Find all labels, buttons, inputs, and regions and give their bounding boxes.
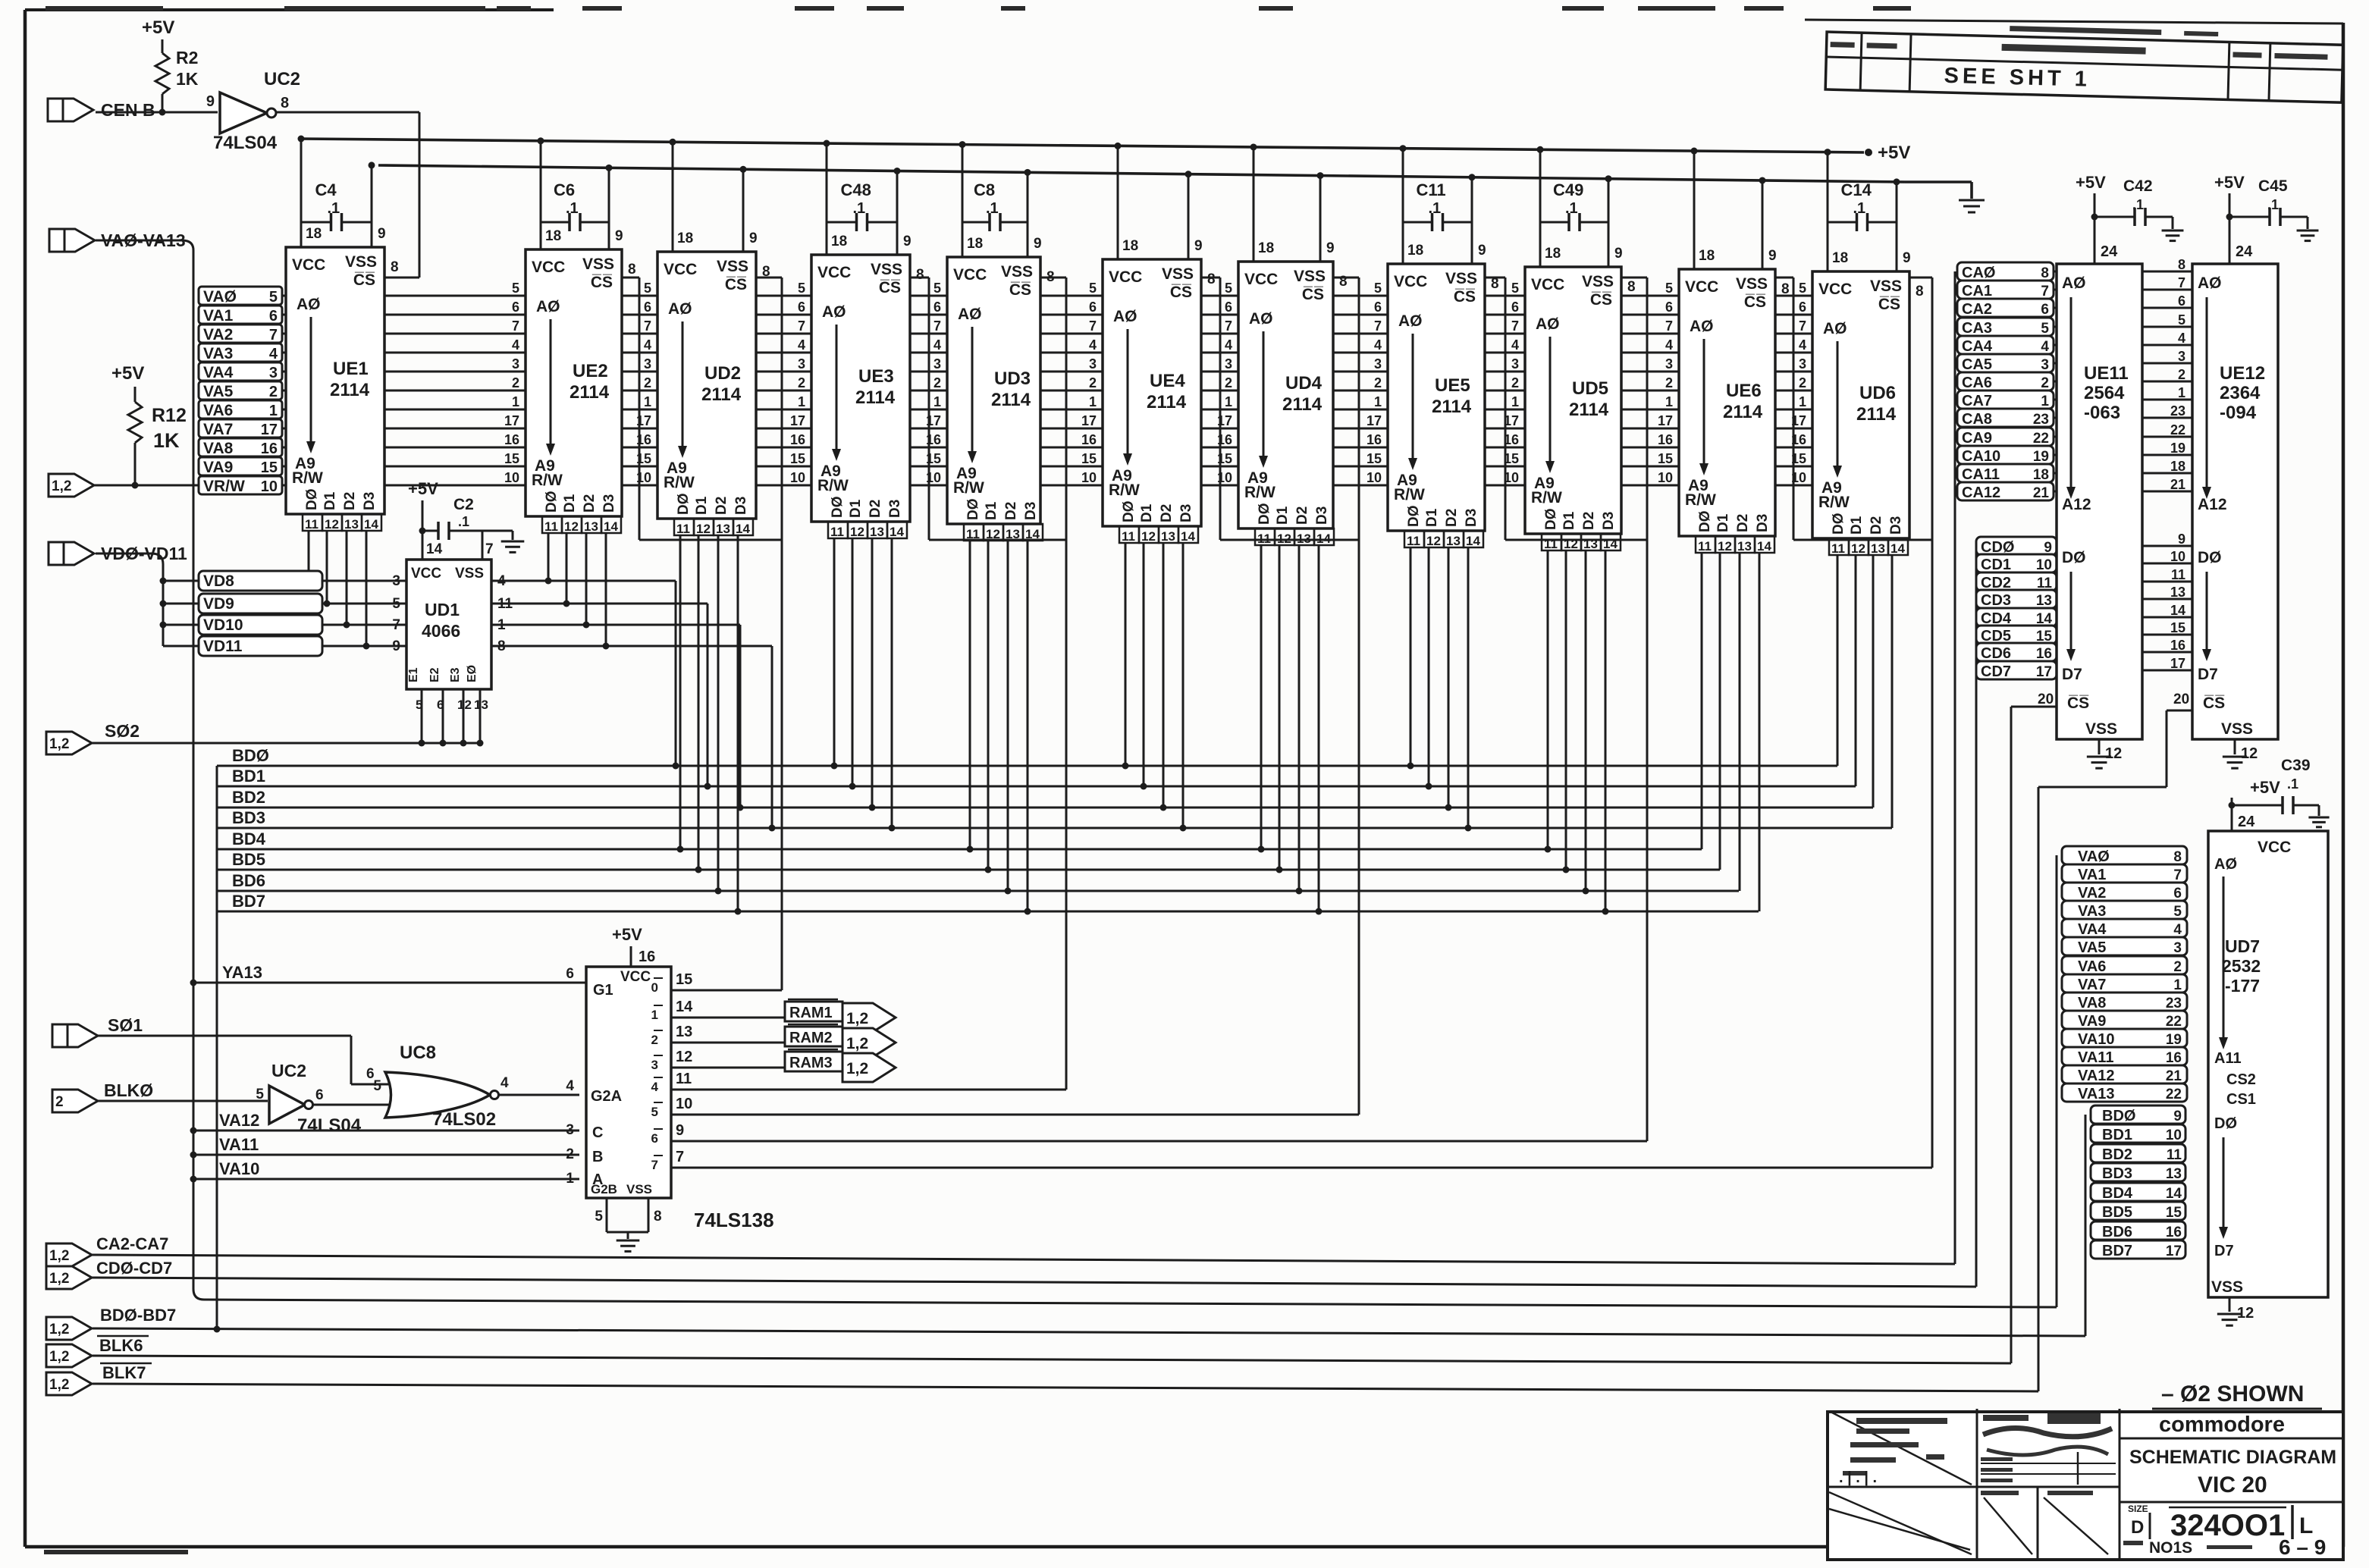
svg-text:24: 24 (2236, 243, 2253, 260)
svg-text:19: 19 (2166, 1032, 2182, 1048)
svg-text:9: 9 (1903, 250, 1911, 266)
svg-text:9: 9 (615, 228, 623, 244)
svg-text:16: 16 (1366, 432, 1382, 447)
svg-text:4: 4 (2178, 331, 2185, 346)
wire UD6 pin9 stub (1896, 182, 1898, 271)
resistor R2 1K (162, 39, 164, 53)
svg-text:2: 2 (798, 375, 805, 390)
capacitor C48 .1 (827, 221, 857, 224)
wire UE4 data drops to BD0-BD3 (1125, 543, 1127, 766)
ground (VSS rail, top right) (1959, 199, 1985, 202)
svg-text:1: 1 (512, 394, 519, 409)
svg-text:-094: -094 (2220, 403, 2257, 423)
wire chip-select stubs (CS pin 8) (622, 277, 639, 279)
svg-text:AØ: AØ (2198, 274, 2222, 292)
svg-text:20: 20 (2038, 691, 2054, 707)
wire UE1 pin9 stub (371, 165, 373, 247)
svg-text:VD8: VD8 (203, 572, 234, 590)
wire YA13 to UC4 G1 (193, 982, 586, 984)
address bus ladder A0-A9 (through all 2114 gaps) (227, 295, 1909, 297)
svg-text:4066: 4066 (422, 621, 460, 641)
svg-text:7: 7 (512, 318, 519, 334)
revision table (SEE SHT 1) (1825, 21, 2343, 102)
svg-text:5: 5 (1225, 281, 1232, 296)
wire CA2-CA7 run (91, 1255, 1955, 1264)
svg-text:CD1: CD1 (1981, 557, 2011, 573)
ground (UC4) (617, 1240, 640, 1242)
wire UD2 data drops to BD4-BD7 (679, 535, 682, 849)
svg-text:13: 13 (2170, 585, 2185, 600)
svg-text:4: 4 (644, 337, 651, 353)
svg-text:7: 7 (2173, 867, 2182, 883)
svg-text:CD7: CD7 (1981, 663, 2011, 680)
svg-text:G2A: G2A (591, 1088, 622, 1105)
svg-text:12: 12 (986, 527, 1000, 541)
svg-text:VSS: VSS (1445, 270, 1477, 287)
sheet border frame (24, 10, 27, 1547)
wire UD4 pin18 stub (1253, 147, 1255, 262)
svg-text:2564: 2564 (2084, 383, 2125, 403)
svg-text:2: 2 (1511, 375, 1519, 390)
svg-text:VCC: VCC (1244, 271, 1278, 288)
svg-text:D3: D3 (362, 492, 378, 510)
wire UD2 pin9 stub (742, 169, 745, 252)
svg-text:14: 14 (1603, 537, 1618, 551)
wire UE11 +5V pin 24 (2094, 193, 2096, 264)
svg-text:2: 2 (1089, 375, 1097, 390)
op-amp UC2-2 inverter (74LS04) (269, 1086, 305, 1124)
svg-text:+5V: +5V (111, 363, 144, 384)
svg-text:2114: 2114 (330, 380, 370, 400)
svg-text:3: 3 (566, 1122, 574, 1138)
connector CA2-CA7 (1,2) (46, 1243, 92, 1266)
svg-text:8: 8 (1627, 279, 1636, 295)
svg-text:AØ: AØ (1690, 318, 1714, 335)
wire UC4 Y7 to UD6 chip-select (671, 1167, 1932, 1169)
svg-text:VA4: VA4 (2078, 921, 2107, 938)
svg-text:3: 3 (933, 356, 941, 372)
svg-text:AØ: AØ (297, 296, 321, 313)
svg-text:16: 16 (2166, 1225, 2182, 1240)
svg-text:16: 16 (636, 432, 651, 447)
svg-text:+5V: +5V (2214, 173, 2245, 192)
svg-text:B: B (592, 1149, 603, 1165)
svg-text:VSS: VSS (626, 1182, 652, 1196)
svg-text:VA12: VA12 (219, 1111, 259, 1130)
svg-text:UD5: UD5 (1572, 378, 1608, 399)
svg-text:VSS: VSS (1582, 273, 1614, 290)
svg-text:CDØ-CD7: CDØ-CD7 (96, 1259, 172, 1278)
svg-text:16: 16 (2166, 1050, 2182, 1066)
svg-text:1: 1 (2173, 977, 2182, 993)
svg-text:12: 12 (1141, 529, 1156, 544)
svg-text:17: 17 (2166, 1243, 2182, 1259)
svg-text:7: 7 (676, 1149, 684, 1165)
svg-text:74LS02: 74LS02 (432, 1109, 496, 1130)
svg-text:VSS: VSS (1001, 263, 1033, 281)
svg-text:5: 5 (1665, 281, 1673, 296)
svg-text:6: 6 (437, 698, 444, 712)
svg-text:7: 7 (2041, 284, 2049, 299)
svg-text:13: 13 (1583, 537, 1598, 551)
svg-text:4: 4 (1665, 337, 1673, 353)
svg-text:VCC: VCC (1685, 278, 1718, 296)
svg-text:R12: R12 (152, 405, 187, 426)
svg-text:1K: 1K (153, 429, 180, 452)
svg-text:C39: C39 (2281, 757, 2311, 774)
svg-text:DØ: DØ (1831, 513, 1847, 535)
svg-text:3: 3 (392, 573, 400, 589)
connector BD0-BD7 (1,2) (46, 1317, 92, 1340)
capacitor C8 .1 (962, 221, 990, 224)
capacitor C14 .1 (1828, 221, 1857, 224)
svg-text:2: 2 (55, 1094, 64, 1110)
svg-text:9: 9 (378, 226, 386, 242)
svg-text:17: 17 (2170, 656, 2185, 671)
svg-text:1,2: 1,2 (846, 1035, 868, 1052)
ground (C45) (2297, 230, 2319, 232)
wire UC2 output to UE1 CS (276, 111, 419, 114)
svg-text:R/W: R/W (664, 474, 695, 491)
svg-text:4: 4 (651, 1080, 659, 1094)
svg-text:DØ: DØ (544, 491, 560, 513)
RAM UE5 2114 (1388, 264, 1485, 531)
svg-text:6: 6 (1665, 299, 1673, 315)
svg-text:15: 15 (2166, 1205, 2182, 1221)
svg-text:4: 4 (269, 346, 278, 362)
svg-text:D1: D1 (848, 499, 864, 518)
node BD0-BD7 label boxes (UD7) (2091, 1105, 2185, 1124)
svg-text:3: 3 (1799, 356, 1806, 372)
svg-text:.1: .1 (2287, 776, 2298, 792)
svg-text:4: 4 (2041, 339, 2049, 355)
svg-text:18: 18 (1407, 243, 1423, 259)
svg-text:15: 15 (2170, 620, 2185, 635)
wire UD5 pin18 stub (1539, 149, 1542, 267)
ROM UD7 2332-177 (2208, 831, 2328, 1297)
svg-text:SØ1: SØ1 (108, 1015, 143, 1035)
svg-text:13: 13 (870, 525, 884, 539)
svg-text:D3: D3 (1601, 512, 1617, 530)
wire UD6 pin18 stub (1827, 152, 1829, 271)
svg-text:UD6: UD6 (1859, 383, 1896, 403)
svg-text:15: 15 (1081, 451, 1097, 466)
svg-text:AØ: AØ (1113, 308, 1137, 325)
svg-text:7: 7 (644, 318, 651, 334)
svg-text:DØ: DØ (304, 489, 320, 511)
svg-text:AØ: AØ (536, 298, 560, 315)
svg-text:11: 11 (2167, 1147, 2182, 1163)
svg-text:DØ: DØ (1121, 501, 1137, 523)
svg-text:11: 11 (1407, 534, 1420, 548)
svg-text:6: 6 (512, 299, 519, 315)
svg-text:4: 4 (798, 337, 805, 353)
svg-text:14: 14 (2170, 603, 2185, 618)
svg-text:NO1S: NO1S (2149, 1539, 2192, 1557)
svg-text:R/W: R/W (1818, 494, 1850, 511)
svg-text:D3: D3 (1888, 516, 1904, 535)
wire UE2 data drops to VD lines (548, 533, 550, 581)
wire VD8-VD11 lines from UD1 to data drops (163, 580, 676, 582)
wire VA connector to bus (96, 240, 182, 242)
svg-text:11: 11 (1544, 537, 1558, 551)
svg-text:9: 9 (2173, 1109, 2182, 1124)
svg-text:8: 8 (1046, 269, 1055, 285)
svg-text:VCC: VCC (1109, 268, 1142, 286)
svg-text:C̅S̅: C̅S̅ (1009, 281, 1031, 299)
svg-text:18: 18 (1699, 248, 1715, 264)
svg-text:VA11: VA11 (219, 1135, 259, 1154)
connector VR/W (1,2) (49, 474, 94, 497)
svg-text:C̅S̅: C̅S̅ (2067, 695, 2089, 712)
svg-text:11: 11 (966, 527, 980, 541)
wire UE4 pin18 stub (1117, 146, 1119, 259)
svg-text:D2: D2 (1003, 502, 1019, 520)
svg-text:VA8: VA8 (203, 440, 234, 457)
svg-text:BD3: BD3 (2102, 1165, 2132, 1182)
wire UE6 pin18 stub (1693, 151, 1696, 269)
svg-text:BD4: BD4 (232, 829, 266, 848)
svg-text:14: 14 (364, 517, 378, 532)
svg-text:14: 14 (1757, 539, 1771, 554)
svg-text:1: 1 (1665, 394, 1673, 409)
svg-text:9: 9 (392, 638, 400, 654)
svg-text:D2: D2 (714, 497, 730, 515)
svg-text:19: 19 (2170, 441, 2185, 456)
svg-text:2114: 2114 (570, 382, 610, 403)
svg-text:UC8: UC8 (400, 1043, 436, 1063)
wire UC4 Y6 to UD5/UE6 chip-select (671, 1140, 1647, 1143)
svg-text:BD4: BD4 (2102, 1185, 2133, 1202)
svg-text:A12: A12 (2198, 496, 2227, 513)
svg-text:18: 18 (1122, 238, 1138, 254)
svg-text:R2: R2 (176, 48, 198, 67)
svg-text:DØ: DØ (1697, 511, 1713, 533)
svg-text:VSS: VSS (871, 261, 902, 278)
svg-text:SEE SHT 1: SEE SHT 1 (1944, 64, 2091, 92)
svg-text:CA1: CA1 (1962, 283, 1992, 299)
svg-text:D2: D2 (1159, 504, 1175, 522)
svg-text:10: 10 (2170, 549, 2185, 564)
svg-text:BDØ: BDØ (2102, 1108, 2135, 1124)
RAM UE1 2114 (286, 247, 384, 514)
svg-text:C̅S̅: C̅S̅ (1302, 286, 1324, 303)
svg-text:2114: 2114 (1432, 397, 1472, 417)
svg-text:SIZE: SIZE (2128, 1504, 2148, 1514)
svg-text:VA11: VA11 (2078, 1049, 2113, 1066)
svg-text:VA1: VA1 (203, 307, 234, 325)
svg-text:VSS: VSS (455, 566, 484, 582)
wire CD ladder to UE12 (2057, 545, 2192, 547)
svg-text:2: 2 (1225, 375, 1232, 390)
svg-text:D1: D1 (984, 501, 999, 520)
svg-text:1: 1 (651, 1008, 658, 1022)
svg-text:7: 7 (269, 327, 278, 343)
svg-text:CA4: CA4 (1962, 338, 1993, 355)
svg-text:BDØ: BDØ (232, 746, 269, 765)
svg-text:17: 17 (790, 413, 805, 428)
wire S02 run to UD1 enables (91, 742, 480, 745)
svg-text:11: 11 (2171, 567, 2185, 582)
wire UC2-2 output to UC8 (309, 1104, 391, 1106)
wire UD7 VSS pin 12 ground (2229, 1297, 2231, 1312)
svg-text:5: 5 (512, 281, 519, 296)
svg-text:DØ: DØ (1406, 506, 1422, 528)
node VA0-VA9 / VR-W label boxes (199, 287, 282, 305)
svg-text:2114: 2114 (1282, 394, 1323, 415)
svg-text:C̅S̅: C̅S̅ (1878, 296, 1900, 313)
svg-text:10: 10 (1081, 470, 1097, 485)
svg-text:18: 18 (967, 236, 983, 252)
svg-text:1: 1 (933, 394, 941, 409)
svg-text:5: 5 (2178, 312, 2185, 328)
svg-text:4: 4 (1799, 337, 1806, 353)
svg-text:D1: D1 (1424, 508, 1440, 527)
svg-text:2114: 2114 (1569, 400, 1609, 420)
svg-text:G2B: G2B (591, 1182, 617, 1196)
svg-text:8: 8 (1491, 276, 1499, 292)
svg-text:1,2: 1,2 (49, 1377, 69, 1393)
svg-text:3: 3 (1665, 356, 1673, 372)
svg-text:2: 2 (2178, 367, 2185, 382)
svg-text:VA7: VA7 (2078, 977, 2106, 993)
svg-text:1,2: 1,2 (49, 1248, 69, 1264)
svg-text:CA9: CA9 (1962, 430, 1992, 447)
svg-text:23: 23 (2033, 412, 2049, 428)
svg-text:3: 3 (269, 365, 278, 381)
svg-text:13: 13 (1161, 529, 1175, 544)
svg-text:VA7: VA7 (203, 421, 233, 438)
svg-text:2: 2 (269, 384, 278, 400)
wire VA12 to UC4 C (193, 1130, 579, 1132)
svg-text:AØ: AØ (2062, 274, 2086, 292)
svg-text:6: 6 (798, 299, 805, 315)
svg-text:G1: G1 (593, 982, 613, 999)
svg-text:D1: D1 (322, 491, 338, 510)
svg-text:VA13: VA13 (2078, 1086, 2115, 1102)
svg-text:BD6: BD6 (2102, 1224, 2132, 1240)
svg-text:8: 8 (391, 259, 399, 275)
svg-text:10: 10 (1366, 470, 1382, 485)
svg-text:UE5: UE5 (1435, 375, 1470, 396)
node CA0-CA12 label boxes (1957, 262, 2054, 281)
svg-text:17: 17 (1366, 413, 1382, 428)
svg-text:C̅S̅: C̅S̅ (1590, 291, 1612, 309)
svg-text:D7: D7 (2198, 666, 2218, 683)
wire VA vertical bus (left) (193, 250, 195, 1289)
svg-text:21: 21 (2170, 477, 2185, 492)
wire UD4 data drops to BD4-BD7 (1260, 545, 1263, 849)
svg-text:R/W: R/W (1685, 491, 1716, 509)
svg-text:11: 11 (1257, 532, 1271, 546)
svg-text:6: 6 (566, 966, 574, 982)
svg-text:2114: 2114 (1856, 404, 1897, 425)
svg-text:14: 14 (1181, 529, 1195, 544)
svg-text:1: 1 (1225, 394, 1232, 409)
svg-text:6: 6 (2178, 293, 2185, 309)
svg-text:8: 8 (654, 1209, 662, 1225)
svg-text:1: 1 (497, 617, 506, 633)
svg-text:C̅S̅: C̅S̅ (591, 274, 613, 291)
svg-text:C48: C48 (841, 180, 871, 199)
svg-text:VD10: VD10 (203, 616, 243, 634)
svg-text:6: 6 (315, 1087, 324, 1103)
svg-text:13: 13 (2036, 593, 2052, 609)
wire CEN B to UC2 inverter (96, 111, 218, 114)
svg-text:UE2: UE2 (573, 361, 608, 381)
svg-text:14: 14 (426, 541, 443, 557)
connector BLK7 (1,2) (46, 1372, 92, 1395)
svg-text:7: 7 (651, 1158, 658, 1172)
svg-text:. | . | .: . | . | . (1839, 1469, 1877, 1486)
svg-text:D3: D3 (1755, 514, 1771, 532)
svg-text:+5V: +5V (2250, 778, 2280, 797)
svg-text:.1: .1 (458, 514, 469, 529)
svg-text:D3: D3 (1314, 506, 1330, 525)
svg-text:12: 12 (1718, 539, 1732, 554)
RAM UD6 2114 (1812, 271, 1909, 538)
svg-text:C2: C2 (453, 496, 474, 513)
svg-text:13: 13 (1871, 541, 1885, 556)
svg-text:6: 6 (1374, 299, 1382, 315)
svg-text:11: 11 (497, 596, 513, 612)
svg-text:10: 10 (636, 470, 651, 485)
svg-text:13: 13 (1737, 539, 1752, 554)
svg-text:18: 18 (1258, 240, 1274, 256)
svg-text:8: 8 (1339, 274, 1348, 290)
svg-text:15: 15 (926, 451, 941, 466)
svg-text:23: 23 (2166, 996, 2182, 1011)
svg-text:VCC: VCC (532, 259, 565, 276)
svg-text:8: 8 (1916, 284, 1924, 299)
svg-text:VCC: VCC (1818, 281, 1852, 298)
svg-text:12: 12 (1564, 537, 1578, 551)
svg-text:23: 23 (2170, 403, 2185, 419)
wire UE1 data drops to VD lines (308, 531, 310, 581)
connector CEN B (48, 99, 93, 121)
wire UE6 pin9 stub (1762, 180, 1764, 269)
svg-text:AØ: AØ (668, 300, 692, 318)
svg-text:18: 18 (677, 230, 693, 246)
svg-text:+5V: +5V (2076, 173, 2106, 192)
svg-text:1: 1 (1089, 394, 1097, 409)
RAM UE3 2114 (811, 255, 910, 522)
wire S01 to UC8 input (96, 1035, 351, 1037)
svg-text:16: 16 (1791, 432, 1806, 447)
svg-text:14: 14 (2166, 1186, 2182, 1202)
svg-text:4: 4 (497, 573, 506, 589)
svg-text:UE11: UE11 (2084, 363, 2129, 384)
svg-text:CS2: CS2 (2226, 1071, 2256, 1088)
svg-text:CA7: CA7 (1962, 393, 1992, 409)
svg-text:BD5: BD5 (232, 850, 265, 869)
svg-text:1: 1 (1511, 394, 1519, 409)
svg-text:12: 12 (1277, 532, 1291, 546)
svg-text:VA8: VA8 (2078, 995, 2106, 1011)
wire CA ladder to UE12 (2054, 271, 2192, 273)
svg-text:.1: .1 (328, 200, 340, 217)
svg-text:BLK7: BLK7 (102, 1363, 146, 1382)
svg-text:11: 11 (676, 522, 690, 536)
svg-text:2: 2 (933, 375, 941, 390)
svg-text:CEN B: CEN B (101, 100, 155, 120)
RAM UD2 2114 (657, 252, 756, 519)
svg-text:RAM3: RAM3 (789, 1055, 833, 1071)
svg-text:7: 7 (485, 541, 494, 557)
connector S02 (1,2) (46, 732, 92, 754)
svg-text:.1: .1 (853, 200, 866, 217)
svg-text:3: 3 (1374, 356, 1382, 372)
